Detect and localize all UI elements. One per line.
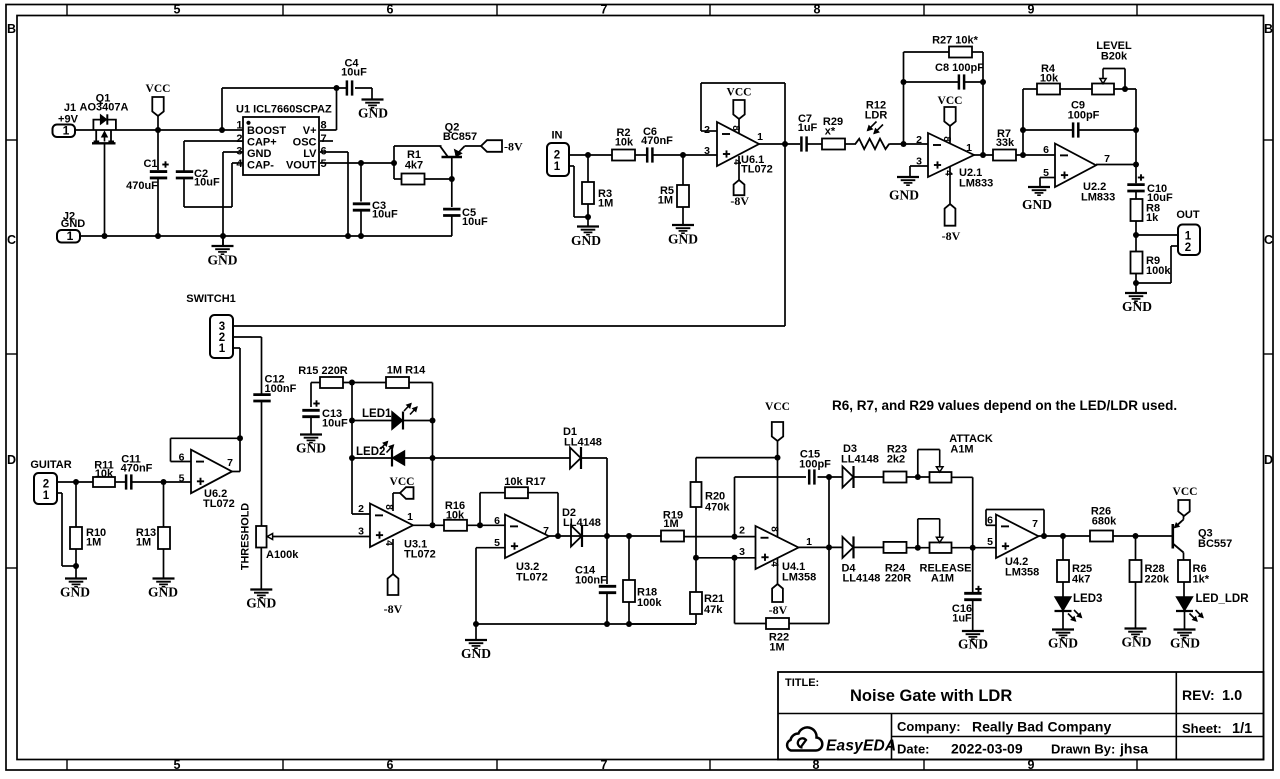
resistor R8 1k (1135, 191, 1137, 199)
svg-text:GND: GND (246, 596, 276, 611)
svg-text:A100k: A100k (266, 549, 299, 561)
svg-text:TL072: TL072 (741, 164, 773, 176)
svg-text:2: 2 (358, 503, 364, 515)
wire U3.1 output (413, 524, 444, 526)
svg-text:1M: 1M (136, 537, 151, 549)
svg-text:7: 7 (1104, 153, 1110, 165)
junction C15 right (826, 474, 832, 480)
svg-text:2: 2 (43, 479, 49, 491)
svg-text:8: 8 (814, 3, 821, 17)
junction Q1 gate on rail (102, 233, 108, 239)
svg-text:CAP+: CAP+ (247, 136, 277, 148)
ground GND below R28 (1125, 627, 1147, 629)
wire R16 to U3.2 (467, 524, 505, 526)
svg-text:4: 4 (731, 159, 742, 165)
junction C3 on rail (358, 233, 364, 239)
svg-text:TL072: TL072 (404, 549, 436, 561)
svg-text:220R: 220R (885, 573, 911, 585)
ground GND below R3 (587, 217, 589, 227)
junction R18 top (626, 533, 632, 539)
svg-text:2k2: 2k2 (887, 454, 905, 466)
svg-text:-8V: -8V (769, 603, 788, 617)
svg-text:1: 1 (236, 120, 242, 132)
junction U4.1 output node (826, 544, 832, 550)
wire THRESHOLD bottom to GND (260, 548, 262, 590)
resistor R28 220k (1135, 536, 1137, 560)
svg-text:3: 3 (739, 546, 745, 558)
svg-text:7: 7 (543, 525, 549, 537)
wire U1 pin4 to C2 bottom (232, 162, 243, 164)
svg-text:-8V: -8V (942, 229, 961, 243)
svg-text:CAP-: CAP- (247, 159, 274, 171)
svg-text:GND: GND (296, 441, 326, 456)
svg-text:5: 5 (174, 3, 181, 17)
wire R17 feedback loop (479, 493, 481, 526)
svg-text:100nF: 100nF (575, 575, 607, 587)
wire C7 to R29 (807, 143, 822, 145)
svg-text:BOOST: BOOST (247, 125, 286, 137)
svg-text:2: 2 (236, 133, 242, 145)
ground GND below C13 (300, 433, 322, 435)
junction R28 top (1133, 533, 1139, 539)
svg-text:7: 7 (601, 3, 608, 17)
junction U4.1 pin2 node (732, 534, 738, 540)
wire U4.2 output row (1039, 535, 1091, 537)
svg-text:LL4148: LL4148 (843, 573, 881, 585)
svg-text:GND: GND (668, 232, 698, 247)
ground GND below R9 (1125, 292, 1147, 294)
svg-text:OUT: OUT (1176, 209, 1200, 221)
svg-text:SWITCH1: SWITCH1 (186, 293, 236, 305)
svg-text:B: B (7, 22, 16, 36)
wire U1 pin3 to GND (223, 151, 243, 153)
border row ticks left (6, 139, 17, 141)
svg-text:LDR: LDR (865, 110, 888, 122)
wire U1 pin6 to rail (320, 151, 348, 153)
wire U3.1 minus input (352, 513, 370, 515)
ground GND below C16 (962, 630, 984, 632)
svg-text:R27 10k*: R27 10k* (932, 35, 979, 47)
junction rail pin5 (473, 621, 479, 627)
capacitor C16 1uF (975, 588, 981, 590)
resistor R9 100k (1131, 252, 1143, 274)
wire C15 row (734, 477, 736, 537)
junction R10 bottom (73, 563, 79, 569)
svg-text:2022-03-09: 2022-03-09 (951, 741, 1023, 757)
svg-text:GND: GND (1122, 299, 1152, 314)
wire R20 bottom to pin3 node (695, 507, 697, 592)
junction C9 right (1133, 127, 1139, 133)
svg-text:10k R17: 10k R17 (504, 476, 546, 488)
svg-text:2: 2 (739, 525, 745, 537)
svg-text:VCC: VCC (390, 476, 415, 488)
wire R22 feedback loop (734, 558, 736, 624)
junction C8 left (901, 79, 907, 85)
junction U2.2 output (1133, 162, 1139, 168)
power flag -8V at U3.1 (392, 539, 394, 574)
wire C13 to GND (310, 417, 312, 435)
wire R20 top to VCC node (696, 457, 778, 459)
svg-text:3: 3 (358, 526, 364, 538)
junction U6.1 output to switch (782, 141, 788, 147)
svg-text:1: 1 (966, 142, 972, 154)
svg-text:TL072: TL072 (203, 498, 235, 510)
svg-text:LM358: LM358 (1005, 567, 1039, 579)
svg-text:IN: IN (552, 130, 563, 142)
wire R29 to R12 (845, 143, 856, 145)
svg-text:C1: C1 (143, 158, 157, 170)
wire R19 to U4.1 minus (684, 536, 756, 538)
wire R4 to LEVEL pot (1060, 88, 1092, 90)
junction VCC/R20 node (775, 455, 781, 461)
svg-text:LM833: LM833 (959, 178, 993, 190)
svg-text:GND: GND (247, 148, 272, 160)
capacitor C13 10uF (313, 403, 319, 405)
junction R18 bottom (626, 621, 632, 627)
wire R26 to Q3 base (1113, 535, 1172, 537)
svg-text:1: 1 (219, 343, 226, 355)
wire U4.1 plus input row (696, 557, 756, 559)
svg-text:470nF: 470nF (121, 463, 153, 475)
wire R1 to Q2 collector node (425, 178, 452, 180)
op-amp U4.1 LM358 (756, 526, 799, 569)
op-amp U3.2 TL072 (505, 515, 549, 559)
capacitor C5 10uF (451, 179, 453, 207)
junction LED2 left (349, 455, 355, 461)
wire R4/C9 feedback left leg (1022, 89, 1024, 155)
wire R12 to U2.1 (889, 143, 928, 145)
junction LED2/D1 node (430, 455, 436, 461)
wire Q1 gate to ground rail (104, 145, 106, 237)
wire C12 to THRESHOLD (261, 401, 263, 526)
svg-text:1: 1 (554, 161, 561, 173)
resistor R25 4k7 (1062, 536, 1064, 560)
resistor R20 470k (695, 458, 697, 482)
svg-text:47k: 47k (704, 604, 723, 616)
svg-text:A1M: A1M (931, 573, 954, 585)
ground GND below LED3 (1052, 628, 1074, 630)
ground GND below R13 (163, 549, 165, 579)
svg-text:9: 9 (1028, 3, 1035, 17)
svg-text:1uF: 1uF (952, 613, 972, 625)
svg-text:LED1: LED1 (362, 408, 392, 420)
svg-text:100pF: 100pF (1068, 110, 1100, 122)
svg-text:5: 5 (179, 473, 185, 485)
svg-text:1M: 1M (598, 198, 613, 210)
wire R21 bottom to rail (695, 614, 697, 624)
svg-text:jhsa: jhsa (1119, 741, 1148, 757)
svg-text:GND: GND (1122, 635, 1152, 650)
wire D1 down to output row (581, 457, 607, 459)
svg-text:EasyEDA: EasyEDA (826, 738, 896, 755)
svg-text:GND: GND (571, 233, 601, 248)
junction VCC node (155, 127, 161, 133)
wire ATTACK to release node (952, 476, 973, 478)
svg-text:GND: GND (148, 585, 178, 600)
junction LED1 left (349, 418, 355, 424)
junction C14 bottom (604, 621, 610, 627)
svg-text:10uF: 10uF (462, 216, 488, 228)
junction LEVEL wiper (1122, 86, 1128, 92)
wire U4.1 output row (799, 546, 843, 548)
svg-text:470k: 470k (705, 502, 730, 514)
svg-text:Really Bad Company: Really Bad Company (972, 719, 1111, 735)
svg-text:1.0: 1.0 (1222, 688, 1242, 704)
svg-text:VCC: VCC (765, 401, 790, 413)
wire U6.2 output (232, 471, 240, 473)
svg-text:LV: LV (303, 148, 317, 160)
junction R7 right (1020, 152, 1026, 158)
junction R12 to feedback node (901, 141, 907, 147)
wire SWITCH1 pin1 to U6.2 output (233, 347, 240, 349)
power flag -8V at U2.1 (949, 167, 951, 204)
junction OUT pin1 node (1133, 232, 1139, 238)
svg-text:10uF: 10uF (194, 177, 220, 189)
resistor R5 1M (682, 155, 684, 185)
wire J1 to Q1 to VCC node to U1 pin1 (75, 129, 243, 131)
wire U6.1 feedback loop (701, 130, 717, 132)
wire right feedback leg down (1135, 89, 1137, 183)
svg-text:x*: x* (825, 126, 836, 138)
wire U6.1 output down to SWITCH1 pin3 (784, 144, 786, 326)
svg-text:7: 7 (1032, 518, 1038, 530)
junction U2.1 output feedback (980, 152, 986, 158)
svg-text:GND: GND (208, 253, 238, 268)
svg-text:10k: 10k (615, 137, 634, 149)
capacitor C2 10uF (176, 170, 193, 173)
ground GND below rail (212, 245, 234, 247)
svg-text:100pF: 100pF (799, 459, 831, 471)
ground GND below R10 (75, 566, 77, 579)
svg-text:1: 1 (63, 124, 70, 138)
wire U1 pin2 to C2 top (184, 140, 243, 142)
svg-text:Company:: Company: (897, 719, 961, 734)
svg-text:1: 1 (806, 536, 812, 548)
svg-text:VOUT: VOUT (286, 159, 317, 171)
wire R24 to RELEASE (907, 547, 930, 549)
svg-text:8: 8 (321, 120, 327, 132)
wire R1 bypass loop (393, 146, 395, 179)
svg-text:U1 ICL7660SCPAZ: U1 ICL7660SCPAZ (236, 104, 332, 116)
svg-text:4k7: 4k7 (405, 160, 423, 172)
svg-text:470nF: 470nF (641, 135, 673, 147)
junction U3.1 output node (430, 522, 436, 528)
svg-text:C: C (7, 233, 16, 247)
svg-text:GND: GND (461, 646, 491, 661)
svg-text:VCC: VCC (727, 87, 752, 99)
border row ticks right (1264, 139, 1274, 141)
svg-text:GND: GND (60, 585, 90, 600)
svg-text:LED_LDR: LED_LDR (1196, 593, 1250, 605)
resistor R3 1M (587, 155, 589, 182)
junction Q2 base node (449, 176, 455, 182)
wire U3.2 plus input (476, 547, 505, 549)
op-amp U2.1 LM833 (928, 133, 974, 177)
wire U2.1 plus input to GND (910, 165, 928, 167)
svg-text:-8V: -8V (384, 602, 403, 616)
wire R27/C8 feedback left leg (903, 52, 905, 144)
svg-text:1: 1 (1185, 231, 1192, 243)
junction D1/C14 node (604, 533, 610, 539)
svg-text:GND: GND (958, 637, 988, 652)
svg-text:R15 220R: R15 220R (298, 365, 348, 377)
svg-text:A1M: A1M (950, 443, 973, 455)
junction RELEASE wiper node (915, 545, 921, 551)
svg-text:C: C (1264, 233, 1273, 247)
wire Q2 emitter to -8V flag (465, 145, 482, 147)
border column ticks bottom (66, 760, 68, 771)
junction R3 top (585, 152, 591, 158)
ground rail wire (80, 235, 452, 237)
svg-text:REV:: REV: (1182, 687, 1215, 703)
svg-text:680k: 680k (1092, 516, 1117, 528)
svg-text:LM358: LM358 (782, 572, 816, 584)
svg-text:-8V: -8V (504, 140, 523, 154)
junction R10 top (73, 479, 79, 485)
svg-text:1M R14: 1M R14 (387, 365, 426, 377)
wire R28 to GND (1135, 582, 1137, 629)
wire C4 branch up and across (221, 88, 223, 130)
svg-text:10uF: 10uF (372, 209, 398, 221)
svg-text:Noise Gate with LDR: Noise Gate with LDR (850, 687, 1012, 705)
wire THRESHOLD wiper to U3.1 plus (273, 536, 371, 538)
border column ticks top (66, 5, 68, 16)
svg-text:220k: 220k (1145, 574, 1170, 586)
junction LED1 right (430, 418, 436, 424)
svg-text:470uF: 470uF (126, 180, 158, 192)
ground GND at U2.2 (1028, 186, 1050, 188)
op-amp U3.1 TL072 (370, 504, 413, 548)
junction pin3/R22 node (732, 555, 738, 561)
svg-text:Date:: Date: (897, 742, 930, 757)
junction R9 bottom node (1133, 280, 1139, 286)
svg-text:BC857: BC857 (443, 131, 477, 143)
wire SWITCH1 pin2 to C12 (233, 336, 262, 338)
svg-text:VCC: VCC (1173, 486, 1198, 498)
diode D2 LL4148 body (571, 526, 582, 547)
svg-text:1k: 1k (1146, 212, 1159, 224)
svg-text:Drawn By:: Drawn By: (1051, 742, 1115, 757)
power flag -8V at U4.1 (777, 558, 779, 584)
resistor R22 1M (766, 618, 789, 629)
wire GUITAR pin1 to R10 bottom (57, 492, 62, 494)
svg-text:GND: GND (61, 218, 86, 230)
wire C4 to GND (355, 87, 372, 89)
junction R1 loop on VOUT wire (391, 160, 397, 166)
svg-text:LL4148: LL4148 (841, 454, 879, 466)
svg-text:1/1: 1/1 (1232, 721, 1252, 737)
svg-text:Sheet:: Sheet: (1182, 721, 1222, 736)
junction LV on rail (345, 233, 351, 239)
wire R14 right down (409, 382, 433, 384)
op-amp U2.2 LM833 (1055, 144, 1096, 188)
wire OUT pin2 (1171, 245, 1178, 247)
svg-text:1: 1 (757, 131, 763, 143)
svg-text:1M: 1M (86, 537, 101, 549)
svg-text:2: 2 (554, 150, 560, 162)
svg-text:GND: GND (1048, 636, 1078, 651)
wire U1 pin5 VOUT east (320, 162, 394, 164)
EasyEDA logo (787, 727, 822, 750)
svg-text:10uF: 10uF (341, 67, 367, 79)
op-amp U6.1 TL072 (717, 122, 759, 166)
junction C8 right (980, 79, 986, 85)
svg-text:5: 5 (174, 758, 181, 772)
resistor R13 1M (163, 482, 165, 527)
junction C16 node (970, 545, 976, 551)
wire U1 pin8 to C4 wire (320, 129, 337, 131)
power flag -8V at Q2 (481, 140, 502, 152)
svg-text:4k7: 4k7 (1072, 574, 1090, 586)
svg-text:OSC: OSC (293, 136, 317, 148)
wire RELEASE to U4.2 plus (952, 547, 997, 549)
svg-text:GND: GND (1170, 636, 1200, 651)
junction C3 tap on VOUT wire (358, 160, 364, 166)
wire U1 pin7 stub (320, 140, 333, 142)
svg-text:1k*: 1k* (1193, 574, 1210, 586)
svg-text:6: 6 (494, 515, 500, 527)
junction R17 left node (477, 522, 483, 528)
svg-text:R6, R7, and R29 values depend: R6, R7, and R29 values depend on the LED… (832, 398, 1177, 413)
wire R8 to R9 (1135, 221, 1137, 252)
svg-text:3: 3 (704, 145, 710, 157)
svg-text:LED3: LED3 (1073, 593, 1102, 605)
svg-text:5: 5 (321, 158, 327, 170)
ground GND at C4 (362, 98, 384, 100)
svg-text:1: 1 (67, 229, 74, 243)
svg-text:GND: GND (889, 188, 919, 203)
svg-text:B: B (1264, 22, 1273, 36)
svg-text:AO3407A: AO3407A (80, 102, 129, 114)
wire C15 node down to output (828, 477, 830, 547)
svg-text:THRESHOLD: THRESHOLD (240, 503, 252, 570)
svg-text:100k: 100k (637, 597, 662, 609)
svg-text:BC557: BC557 (1198, 538, 1232, 550)
svg-text:C8 100pF: C8 100pF (935, 62, 984, 74)
junction R17 right (555, 533, 561, 539)
wire R9 bottom (1135, 274, 1137, 294)
junction C4 branch node (219, 127, 225, 133)
svg-text:-8V: -8V (730, 194, 749, 208)
wire C6 to U6.1 plus input (653, 154, 717, 156)
junction U4.2 feedback right (1041, 533, 1047, 539)
wire GUITAR pin2 to R11 (57, 481, 93, 483)
connector J1 +9V (53, 125, 76, 138)
svg-text:2: 2 (704, 124, 710, 136)
svg-text:B20k: B20k (1101, 51, 1128, 63)
svg-text:1uF: 1uF (798, 122, 818, 134)
svg-text:GUITAR: GUITAR (30, 459, 71, 471)
svg-text:5: 5 (987, 536, 993, 548)
svg-text:7: 7 (227, 457, 233, 469)
svg-text:33k: 33k (996, 137, 1015, 149)
ground GND below LED_LDR (1174, 628, 1196, 630)
wire IN pin1 to R3 bottom (569, 165, 574, 167)
svg-text:TL072: TL072 (516, 572, 548, 584)
junction ATTACK wiper node (915, 474, 921, 480)
junction R3 bottom (585, 214, 591, 220)
svg-text:1M: 1M (769, 642, 784, 654)
svg-text:2: 2 (1185, 242, 1191, 254)
ground GND below THRESHOLD (250, 588, 272, 590)
svg-text:6: 6 (387, 3, 394, 17)
wire IN pin2 to R2 (569, 154, 612, 156)
svg-text:4: 4 (236, 158, 243, 170)
capacitor C3 10uF (360, 163, 362, 202)
junction C11 to R13 (161, 479, 167, 485)
svg-text:4: 4 (943, 170, 954, 176)
wire U4.2 feedback loop (986, 524, 996, 526)
